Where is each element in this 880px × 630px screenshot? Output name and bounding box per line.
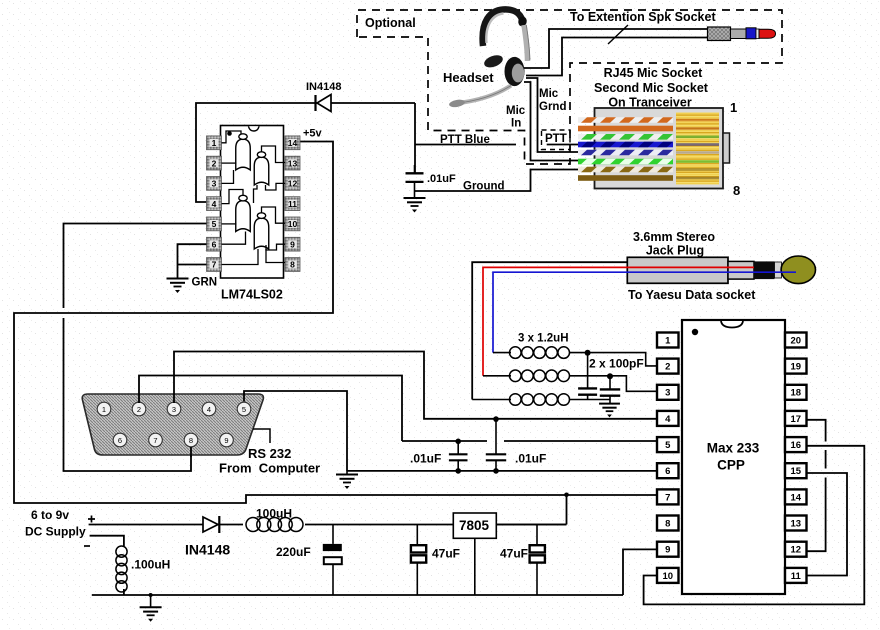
wire +5v net: LM pin14 to 7805 output rail	[14, 142, 658, 504]
Max233 pin 11	[785, 568, 807, 583]
NOR gate G4	[254, 218, 269, 249]
LM74LS02 pin 13	[285, 156, 300, 170]
svg-text:LM74LS02: LM74LS02	[221, 288, 283, 302]
wire LM pin5 to DB9 pin8	[64, 224, 207, 309]
3.5mm extension speaker plug	[708, 27, 776, 41]
svg-text:IN4148: IN4148	[306, 81, 341, 93]
Max233 pin 12	[785, 542, 807, 557]
svg-text:47uF: 47uF	[500, 547, 528, 561]
svg-text:5: 5	[665, 440, 671, 451]
svg-text:47uF: 47uF	[432, 547, 460, 561]
Max233 pin 14	[785, 489, 807, 504]
svg-text:Optional: Optional	[365, 16, 416, 30]
Max233 pin 1	[657, 333, 679, 348]
svg-text:Headset: Headset	[443, 70, 494, 85]
diode IN4148 (bottom)	[203, 517, 218, 532]
RJ45 wire rows 1-8	[578, 117, 673, 123]
svg-text:RJ45 Mic Socket: RJ45 Mic Socket	[604, 66, 703, 80]
LM74LS02 pin 11	[285, 197, 300, 211]
svg-text:14: 14	[288, 138, 298, 148]
wire L2 to Max233 pin3	[569, 376, 657, 392]
leader line RS232	[253, 429, 270, 443]
LM74LS02 pin 1	[207, 136, 222, 150]
svg-text:Mic: Mic	[539, 88, 559, 100]
capacitor .01uF (top)	[414, 165, 416, 173]
ground (supply)	[149, 593, 153, 597]
plus terminal	[88, 516, 95, 523]
inductor L2 (middle 1.2uH)	[483, 375, 511, 377]
DB9 pin 9	[220, 433, 234, 447]
wire DB9 pin8 stub	[190, 447, 192, 457]
LM74LS02 pin 10	[285, 217, 300, 231]
Max233 pin 8	[657, 516, 679, 531]
capacitor 100pF (right)	[609, 376, 611, 389]
svg-text:1: 1	[212, 138, 217, 148]
svg-text:11: 11	[288, 199, 297, 209]
svg-text:2: 2	[137, 405, 141, 414]
svg-text:13: 13	[790, 518, 801, 529]
svg-text:11: 11	[791, 571, 802, 582]
svg-text:10: 10	[288, 219, 298, 229]
RJ45 clip tab	[723, 133, 730, 163]
wire red ring	[483, 267, 754, 375]
Max233 pin 19	[785, 359, 807, 374]
DB9 pin 5	[237, 402, 251, 416]
svg-text:8: 8	[733, 183, 740, 198]
svg-text:7: 7	[212, 260, 217, 270]
capacitor 47uF (left)	[416, 525, 418, 546]
NOR gate G2	[254, 157, 269, 185]
Max233 pin 20	[785, 333, 807, 348]
Max233 pin 16	[785, 437, 807, 452]
notch	[249, 126, 260, 131]
wire DB9 pin2 to Max233 pin5	[139, 376, 402, 442]
svg-text:9: 9	[224, 436, 228, 445]
ground (below .01uF top cap)	[414, 191, 416, 198]
svg-text:3 x 1.2uH: 3 x 1.2uH	[518, 333, 569, 345]
svg-text:6 to 9v: 6 to 9v	[31, 508, 69, 522]
wire PTT to RJ45 row4	[547, 144, 578, 146]
Max233 pin 6	[657, 463, 679, 478]
svg-text:19: 19	[790, 362, 801, 373]
DB9 pin 1	[97, 402, 111, 416]
Max233 pin 10	[657, 568, 679, 583]
DB9 pin 3	[167, 402, 181, 416]
LM74LS02 pin 2	[207, 156, 222, 170]
capacitor 100pF (left)	[587, 353, 589, 389]
svg-text:Ground: Ground	[463, 181, 505, 193]
svg-text:3: 3	[665, 388, 670, 399]
svg-text:8: 8	[290, 260, 295, 270]
wire LM pin6,7 to ground	[178, 244, 207, 264]
wire node down to cap	[414, 103, 416, 173]
svg-text:DC Supply: DC Supply	[25, 525, 86, 539]
minus terminal mark	[84, 545, 90, 547]
wire ground line to Max233 pin6	[347, 470, 657, 472]
wire Max233 pin17 to pin12	[807, 420, 826, 442]
svg-text:.01uF: .01uF	[515, 452, 546, 466]
cable slash mark	[608, 25, 628, 44]
NOR gate G1	[236, 139, 251, 170]
wire 7805 output	[496, 524, 566, 526]
svg-text:14: 14	[790, 492, 801, 503]
svg-text:15: 15	[790, 466, 801, 477]
svg-text:7: 7	[665, 492, 670, 503]
svg-text:3: 3	[212, 179, 217, 189]
diode IN4148 (top)	[317, 95, 331, 112]
wire blue tip	[493, 272, 796, 352]
wire Max233 pin16 to pin10	[644, 446, 865, 605]
svg-text:1: 1	[730, 100, 737, 115]
IC Max233 body	[682, 320, 785, 594]
svg-text:1: 1	[665, 335, 671, 346]
LM74LS02 pin 5	[207, 217, 222, 231]
Max233 pin 4	[657, 411, 679, 426]
IC LM74LS02 body	[221, 126, 284, 279]
Max233 pin 17	[785, 411, 807, 426]
wire DB9 pin3 to Max233 pin4	[174, 352, 657, 419]
wire DB9 pin5 to ground and Max233 pin6	[244, 391, 347, 471]
inductor L1 (top 1.2uH)	[493, 352, 511, 354]
Max233 pin 5	[657, 437, 679, 452]
pin1 dot marker	[692, 329, 698, 335]
svg-text:In: In	[511, 118, 521, 130]
svg-text:Jack Plug: Jack Plug	[646, 244, 704, 258]
LM74LS02 pin 7	[207, 258, 222, 272]
LM74LS02 pin 14	[285, 136, 300, 150]
svg-text:220uF: 220uF	[276, 545, 311, 559]
svg-text:2: 2	[665, 362, 670, 373]
wire PTT Blue	[415, 144, 516, 146]
ground (RS232)	[346, 471, 348, 475]
svg-text:6: 6	[118, 436, 122, 445]
wire headset speaker A to extension plug	[524, 29, 708, 68]
ground rail	[92, 594, 623, 596]
svg-text:3: 3	[172, 405, 176, 414]
svg-text:5: 5	[242, 405, 246, 414]
wire Mic In	[524, 82, 578, 161]
svg-text:2: 2	[212, 158, 217, 168]
Max233 pin 9	[657, 542, 679, 557]
svg-text:+5v: +5v	[303, 128, 323, 140]
inductor L3 (bottom 1.2uH)	[472, 399, 511, 401]
svg-text:IN4148: IN4148	[185, 542, 230, 558]
LM74LS02 pin 4	[207, 197, 222, 211]
DB9 pin 4	[202, 402, 216, 416]
svg-text:4: 4	[207, 405, 211, 414]
svg-text:12: 12	[288, 179, 298, 189]
7805 center leg	[474, 538, 476, 595]
wire L1 to Max233 pin2	[569, 353, 657, 366]
DB9 pin 6	[113, 433, 127, 447]
svg-text:GRN: GRN	[192, 277, 218, 289]
svg-text:To Yaesu Data socket: To Yaesu Data socket	[628, 288, 756, 302]
svg-text:20: 20	[790, 335, 801, 346]
LM74LS02 pin 9	[285, 237, 300, 251]
svg-text:6: 6	[665, 466, 670, 477]
svg-text:PTT: PTT	[545, 133, 567, 145]
wire Ground: cap to RJ45 pin7	[415, 170, 579, 192]
LM74LS02 pin 8	[285, 258, 300, 272]
svg-text:PTT Blue: PTT Blue	[440, 134, 490, 146]
svg-text:9: 9	[665, 545, 670, 556]
svg-text:7: 7	[153, 436, 157, 445]
inductor .100uH (vertical)	[116, 546, 127, 557]
svg-text:.01uF: .01uF	[427, 173, 456, 185]
junction 7805 output to +5v	[564, 493, 569, 498]
svg-text:100uH: 100uH	[256, 507, 292, 521]
inductor 100uH	[243, 517, 305, 532]
LM74LS02 pin 6	[207, 237, 222, 251]
svg-text:RS 232: RS 232	[248, 446, 291, 461]
svg-text:.100uH: .100uH	[131, 558, 170, 572]
Max233 pin 2	[657, 359, 679, 374]
Max233 pin 7	[657, 489, 679, 504]
wire minus to vertical inductor	[90, 536, 124, 546]
svg-text:10: 10	[662, 571, 673, 582]
svg-text:Grnd: Grnd	[539, 101, 566, 113]
svg-text:5: 5	[212, 219, 217, 229]
LM internal wires	[222, 131, 242, 143]
svg-text:8: 8	[189, 436, 193, 445]
capacitor 47uF (right)	[536, 525, 538, 546]
svg-text:Second Mic Socket: Second Mic Socket	[594, 81, 709, 95]
svg-text:4: 4	[665, 414, 671, 425]
capacitor .01uF (left)	[457, 441, 459, 454]
svg-text:1: 1	[102, 405, 106, 414]
wire L3 to cap ground	[569, 399, 610, 401]
RJ45 gold contacts	[676, 113, 719, 185]
DB9 pin 7	[149, 433, 163, 447]
Max233 pin 13	[785, 516, 807, 531]
wire + supply rail	[89, 524, 567, 526]
headset	[449, 9, 530, 108]
3.6mm stereo jack plug	[627, 256, 815, 284]
LM74LS02 pin 3	[207, 177, 222, 191]
wire Max233 pin9 to ground rail	[623, 549, 657, 595]
svg-text:6: 6	[212, 239, 217, 249]
pin1 dot marker	[227, 131, 232, 136]
svg-text:CPP: CPP	[717, 458, 745, 473]
wire Max233 pin15 to pin11	[807, 473, 848, 576]
regulator 7805	[453, 513, 496, 538]
svg-text:.01uF: .01uF	[410, 452, 441, 466]
LM74LS02 pin 12	[285, 177, 300, 191]
svg-text:4: 4	[212, 199, 217, 209]
svg-text:To Extention Spk Socket: To Extention Spk Socket	[570, 10, 716, 24]
svg-text:12: 12	[790, 545, 801, 556]
Max233 pin 18	[785, 385, 807, 400]
ground GRN	[167, 279, 189, 294]
capacitor 220uF	[332, 525, 334, 544]
svg-text:18: 18	[790, 388, 801, 399]
svg-text:Mic: Mic	[506, 105, 526, 117]
ground (100pF)	[599, 404, 620, 418]
Max233 pin 3	[657, 385, 679, 400]
svg-text:13: 13	[288, 158, 298, 168]
wire headset speaker B to extension plug	[526, 38, 708, 76]
PTT dashed box	[542, 130, 571, 150]
svg-text:17: 17	[790, 414, 801, 425]
svg-text:3.6mm Stereo: 3.6mm Stereo	[633, 230, 715, 244]
svg-text:7805: 7805	[459, 518, 490, 533]
capacitor .01uF (right)	[495, 419, 497, 454]
wire LM pin4 to IN4148 to cap node	[196, 103, 415, 202]
Max233 pin 15	[785, 463, 807, 478]
wire black sleeve	[472, 262, 627, 399]
NOR gate G3	[236, 201, 251, 232]
DB9 connector body	[82, 394, 263, 455]
svg-text:From Computer: From Computer	[219, 461, 320, 476]
RJ45 connector body	[595, 108, 724, 189]
svg-text:Max 233: Max 233	[707, 441, 760, 456]
svg-text:2 x 100pF: 2 x 100pF	[589, 357, 644, 371]
optional dashed boundary box	[357, 10, 782, 164]
svg-text:16: 16	[790, 440, 801, 451]
svg-text:9: 9	[290, 239, 295, 249]
wire Mic Grnd	[526, 78, 578, 152]
notch	[721, 321, 743, 328]
DB9 pin 8	[184, 433, 198, 447]
DB9 pin 2	[132, 402, 146, 416]
svg-text:8: 8	[665, 518, 670, 529]
